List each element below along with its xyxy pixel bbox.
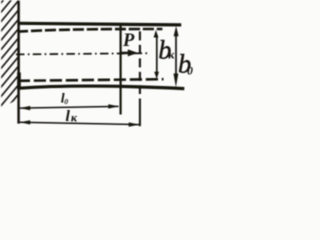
svg-text:P: P	[122, 31, 135, 51]
svg-text:к: к	[71, 111, 78, 125]
svg-text:l: l	[65, 106, 70, 125]
svg-text:к: к	[168, 47, 175, 61]
svg-text:0: 0	[187, 66, 193, 78]
svg-text:0: 0	[64, 97, 68, 106]
